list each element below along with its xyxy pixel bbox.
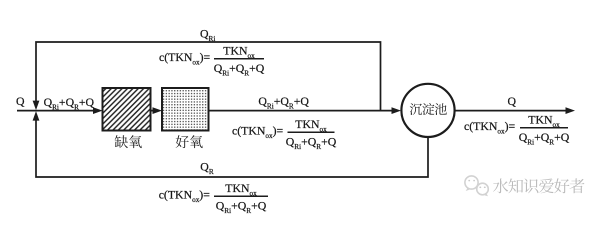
svg-text:Q: Q	[508, 94, 517, 108]
svg-text:Q: Q	[16, 94, 25, 108]
svg-text:QRi+QR+Q: QRi+QR+Q	[216, 198, 267, 214]
